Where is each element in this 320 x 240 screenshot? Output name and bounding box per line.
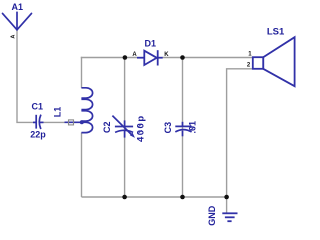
svg-text:1: 1 [248,51,252,57]
svg-text:K: K [164,52,169,58]
svg-text:C2: C2 [102,122,112,134]
svg-text:A: A [11,35,17,39]
svg-text:C1: C1 [32,102,44,112]
svg-text:.01: .01 [188,121,198,134]
svg-text:A: A [132,52,137,58]
svg-text:400p: 400p [135,114,146,142]
svg-text:2: 2 [247,63,251,69]
svg-text:GND: GND [207,205,217,226]
svg-text:LS1: LS1 [267,27,285,38]
svg-text:A1: A1 [12,2,24,12]
svg-text:C3: C3 [163,122,173,134]
svg-text:L1: L1 [53,107,63,118]
svg-text:D1: D1 [145,39,157,49]
svg-text:22p: 22p [30,130,46,140]
